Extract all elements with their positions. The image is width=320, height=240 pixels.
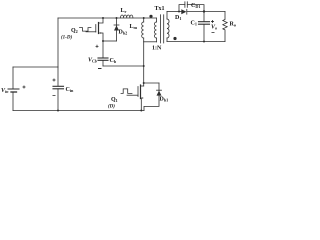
wire riser from input to top rail bbox=[57, 18, 59, 67]
capacitor CD1 branch bbox=[179, 5, 185, 12]
wire transformer leg down to Q1 bbox=[143, 42, 145, 86]
svg-text:Vin: Vin bbox=[1, 88, 9, 94]
label Cin plus bbox=[53, 79, 56, 82]
wire left rail bbox=[12, 67, 14, 111]
capacitor Cin bbox=[57, 67, 59, 86]
svg-text:1:N: 1:N bbox=[152, 46, 162, 52]
node junction dots bbox=[102, 17, 104, 19]
svg-text:C1: C1 bbox=[191, 21, 197, 27]
svg-text:Q1: Q1 bbox=[111, 97, 118, 103]
diode Db1 bbox=[158, 83, 160, 91]
wire secondary top bbox=[167, 11, 181, 13]
wire Cb to transformer leg bbox=[103, 65, 144, 67]
inductor Lm bbox=[143, 18, 145, 22]
node secondary polarity dot bbox=[173, 37, 176, 40]
node primary polarity dot bbox=[149, 15, 152, 18]
svg-text:Ro: Ro bbox=[230, 22, 236, 28]
transformer Tx1 primary winding bbox=[156, 18, 158, 22]
svg-text:Cin: Cin bbox=[66, 87, 75, 93]
svg-text:Lm: Lm bbox=[130, 24, 138, 30]
inductor Lr bbox=[121, 15, 133, 18]
wire input top bbox=[13, 66, 58, 68]
transistor Q1 bbox=[141, 85, 144, 87]
diode Db2 bbox=[116, 18, 118, 41]
wire Q2 source node bbox=[103, 40, 117, 42]
svg-text:Q2: Q2 bbox=[71, 28, 78, 34]
svg-text:(D): (D) bbox=[108, 105, 115, 110]
wire bottom rail bbox=[13, 110, 144, 112]
svg-text:VCb: VCb bbox=[88, 58, 97, 64]
label Vo minus bbox=[212, 32, 215, 34]
wire secondary bottom rail bbox=[167, 41, 225, 43]
label VCb plus bbox=[96, 45, 99, 48]
label Cin minus bbox=[53, 95, 56, 97]
diode D1 bbox=[181, 9, 186, 14]
svg-text:Db1: Db1 bbox=[160, 97, 169, 103]
transformer core bbox=[161, 15, 164, 43]
source Vin battery bbox=[8, 88, 19, 90]
capacitor Cb bbox=[102, 41, 104, 58]
capacitor C1 bbox=[203, 12, 205, 22]
svg-text:(1-D): (1-D) bbox=[61, 36, 72, 41]
wire top rail bbox=[58, 17, 157, 19]
svg-text:Cb: Cb bbox=[110, 58, 117, 64]
svg-text:Db2: Db2 bbox=[119, 30, 128, 36]
label Vo plus bbox=[211, 20, 214, 23]
transformer Tx1 secondary winding bbox=[166, 12, 168, 20]
svg-text:Lr: Lr bbox=[121, 8, 127, 14]
svg-text:CD1: CD1 bbox=[191, 3, 200, 9]
transistor Q2 bbox=[99, 18, 104, 23]
wire windings bottom bbox=[144, 41, 157, 43]
resistor Ro bbox=[223, 12, 227, 42]
wire Q1 drain tee to Db1 bbox=[144, 82, 159, 84]
svg-text:Tx1: Tx1 bbox=[155, 6, 165, 12]
label battery plus bbox=[23, 86, 26, 89]
svg-text:Vo: Vo bbox=[211, 25, 217, 31]
svg-text:D1: D1 bbox=[175, 15, 181, 21]
label VCb minus bbox=[98, 68, 102, 70]
